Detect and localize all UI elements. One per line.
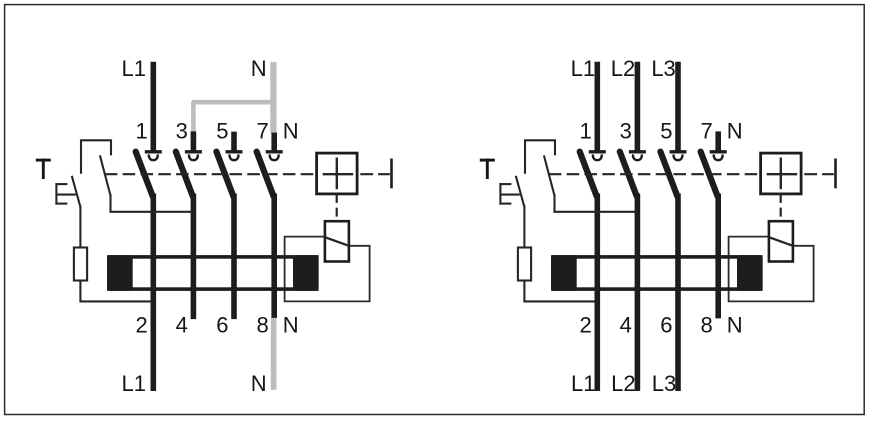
- svg-text:5: 5: [660, 119, 672, 144]
- svg-text:N: N: [283, 313, 299, 338]
- svg-text:7: 7: [700, 119, 712, 144]
- svg-text:6: 6: [216, 313, 228, 338]
- svg-text:7: 7: [256, 119, 268, 144]
- svg-text:L3: L3: [652, 371, 676, 396]
- svg-text:3: 3: [176, 119, 188, 144]
- svg-text:L2: L2: [611, 56, 635, 81]
- svg-text:4: 4: [176, 313, 188, 338]
- svg-text:N: N: [283, 119, 299, 144]
- svg-text:6: 6: [660, 313, 672, 338]
- svg-text:4: 4: [620, 313, 632, 338]
- svg-text:8: 8: [700, 313, 712, 338]
- svg-text:L1: L1: [571, 56, 595, 81]
- svg-text:3: 3: [620, 119, 632, 144]
- svg-text:L1: L1: [122, 56, 146, 81]
- svg-text:L2: L2: [611, 371, 635, 396]
- svg-text:2: 2: [580, 313, 592, 338]
- svg-text:L1: L1: [571, 371, 595, 396]
- svg-text:L1: L1: [122, 371, 146, 396]
- svg-text:5: 5: [216, 119, 228, 144]
- svg-text:N: N: [251, 371, 267, 396]
- svg-text:N: N: [251, 56, 267, 81]
- svg-text:1: 1: [136, 119, 148, 144]
- svg-text:8: 8: [256, 313, 268, 338]
- svg-text:2: 2: [136, 313, 148, 338]
- svg-text:N: N: [727, 313, 743, 338]
- svg-text:1: 1: [580, 119, 592, 144]
- svg-text:L3: L3: [651, 56, 675, 81]
- svg-text:N: N: [727, 119, 743, 144]
